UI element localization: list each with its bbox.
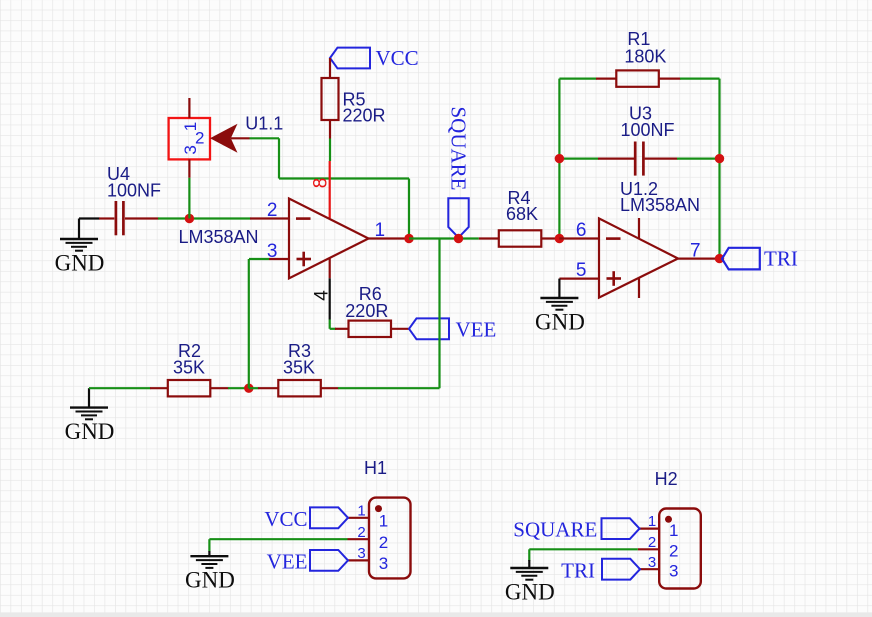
junction R2/R3 [244,384,253,393]
svg-text:1: 1 [648,513,656,530]
junction output pin 1 [404,234,413,243]
svg-text:VEE: VEE [456,317,497,341]
ground GND (R2) [65,388,115,444]
svg-text:4: 4 [311,290,332,301]
svg-text:GND: GND [65,419,115,444]
junction U3 right [715,154,724,163]
svg-text:3: 3 [648,554,656,571]
resistor R1 [596,70,681,86]
svg-text:5: 5 [576,260,587,281]
junction pin 6 [555,234,564,243]
wire arrow stub [231,137,250,139]
svg-text:SQUARE: SQUARE [513,518,597,542]
wire GND to U4 [79,217,100,219]
port flag VCC (H1 pin 1) [310,507,348,528]
pin 1 (output) [369,237,410,239]
svg-text:GND: GND [185,568,235,593]
svg-text:3: 3 [379,554,388,573]
wire VCC to R5 [329,58,331,78]
svg-text:35K: 35K [173,357,205,377]
svg-text:3: 3 [357,545,365,562]
wire U4 to pin 2 [158,217,251,219]
svg-text:2: 2 [267,200,278,221]
ground GND (U4 input) [55,219,105,276]
svg-text:LM358AN: LM358AN [179,227,259,247]
wire pin 3 [249,258,269,260]
wire U3 left [559,158,598,160]
wire H2 pin 2 to GND [529,549,638,561]
svg-text:1: 1 [669,521,678,540]
svg-text:2: 2 [669,541,678,560]
svg-text:3: 3 [669,562,678,581]
svg-text:68K: 68K [506,204,538,224]
wire R1 left [559,77,596,79]
svg-text:H1: H1 [364,458,387,478]
resistor R5 [322,78,339,120]
ground GND (pin 5) [535,279,585,335]
capacitor U3 100NF [598,142,678,176]
pin 3 (non-inverting input) [269,258,289,260]
wire junction up to pin 3 [248,259,250,388]
wire pin4 to R6 [330,320,336,329]
pin 2 stub H1 [348,538,370,540]
svg-text:2: 2 [357,524,365,541]
svg-text:TRI: TRI [561,559,595,583]
wire GND to R2 [89,387,151,389]
svg-text:H2: H2 [655,469,678,489]
pin 7 (output) [678,258,720,260]
wire junction to R3 [249,387,259,389]
svg-text:3: 3 [267,241,278,262]
svg-text:VCC: VCC [264,507,307,531]
junction SQUARE [454,234,463,243]
capacitor U4 100NF [99,201,159,235]
svg-text:GND: GND [535,310,585,335]
svg-text:1: 1 [379,512,388,531]
svg-text:LM358AN: LM358AN [620,195,700,215]
pin 2 (inverting input) [250,217,289,219]
svg-text:180K: 180K [624,46,666,66]
svg-text:6: 6 [576,220,587,241]
svg-text:35K: 35K [283,357,315,377]
pin 1 marker dot H1 [375,505,382,512]
pin 1 stub H1 [348,517,369,519]
pin 1 stub H2 [640,527,660,529]
pin 3 stub H1 [348,559,369,561]
port flag TRI (H2 pin 3) [602,559,640,580]
port flag VEE (H1 pin 3) [310,550,348,571]
wire U3 right [677,158,720,160]
pin 4 stub [329,258,331,278]
svg-text:7: 7 [690,241,701,262]
svg-text:SQUARE: SQUARE [446,107,470,191]
net flag TRI [722,248,760,270]
wire feedback (marker to output) [250,138,410,238]
wire junction up to marker [188,178,190,219]
wire output branch down [438,239,440,389]
power flag VCC [330,48,370,69]
junction U3 left [555,154,564,163]
svg-text:2: 2 [195,129,204,148]
connector H2 [659,509,701,589]
wire H1 pin 2 to GND [209,539,347,551]
svg-text:VCC: VCC [376,46,419,70]
svg-text:100NF: 100NF [107,181,161,201]
junction pin 7 / TRI [715,254,724,263]
svg-text:8: 8 [311,178,332,189]
port flag SQUARE (H2 pin 1) [602,518,640,539]
pin 5 (non-inverting input) [559,278,599,280]
pin 1 marker dot H2 [665,516,672,523]
pin 2 stub H2 [638,548,659,550]
wire R5 to pin 8 [329,139,331,162]
arrow pointer to U1.1 [210,124,238,153]
connector H1 [369,498,411,579]
resistor R2 [150,380,229,396]
pin 3 stub H2 [640,568,659,570]
svg-text:2: 2 [379,533,388,552]
svg-text:100NF: 100NF [621,120,675,140]
net flag SQUARE [448,198,468,237]
wire R2 to junction [228,387,249,389]
op-amp U1 (LM358AN, unit 1) [289,199,369,279]
svg-text:GND: GND [505,580,555,605]
svg-text:2: 2 [648,534,656,551]
svg-text:220R: 220R [345,301,388,321]
pin 6 (inverting input) [559,237,599,239]
power flag VEE [409,318,449,339]
svg-text:U1.1: U1.1 [245,114,283,134]
junction node [185,214,194,223]
connector marker U1.1 (red box) [169,98,210,178]
wire right vertical (R1 to pin 7) [718,79,720,259]
ground GND (H2) [505,560,555,605]
svg-text:1: 1 [357,502,365,519]
svg-text:GND: GND [55,251,105,276]
svg-text:220R: 220R [343,106,386,126]
ground GND (H1) [185,551,235,593]
wire R1 right [680,77,720,79]
wire left vertical (R1/U3 to pin 6) [558,79,560,239]
svg-text:3: 3 [181,145,200,154]
wire output to R4 [409,237,479,239]
pin R5 bottom [329,120,331,139]
resistor R3 [258,380,339,396]
op-amp U1.2 (LM358AN, unit 2) [599,218,678,298]
svg-text:VEE: VEE [267,549,308,573]
svg-text:1: 1 [375,220,386,241]
pin 8 line (power pin) [329,161,331,218]
pin 4 wire (black) [329,278,331,319]
resistor R6 [335,321,409,337]
wire R3 to branch [338,387,440,389]
resistor R4 [479,230,560,246]
svg-text:TRI: TRI [764,247,798,271]
